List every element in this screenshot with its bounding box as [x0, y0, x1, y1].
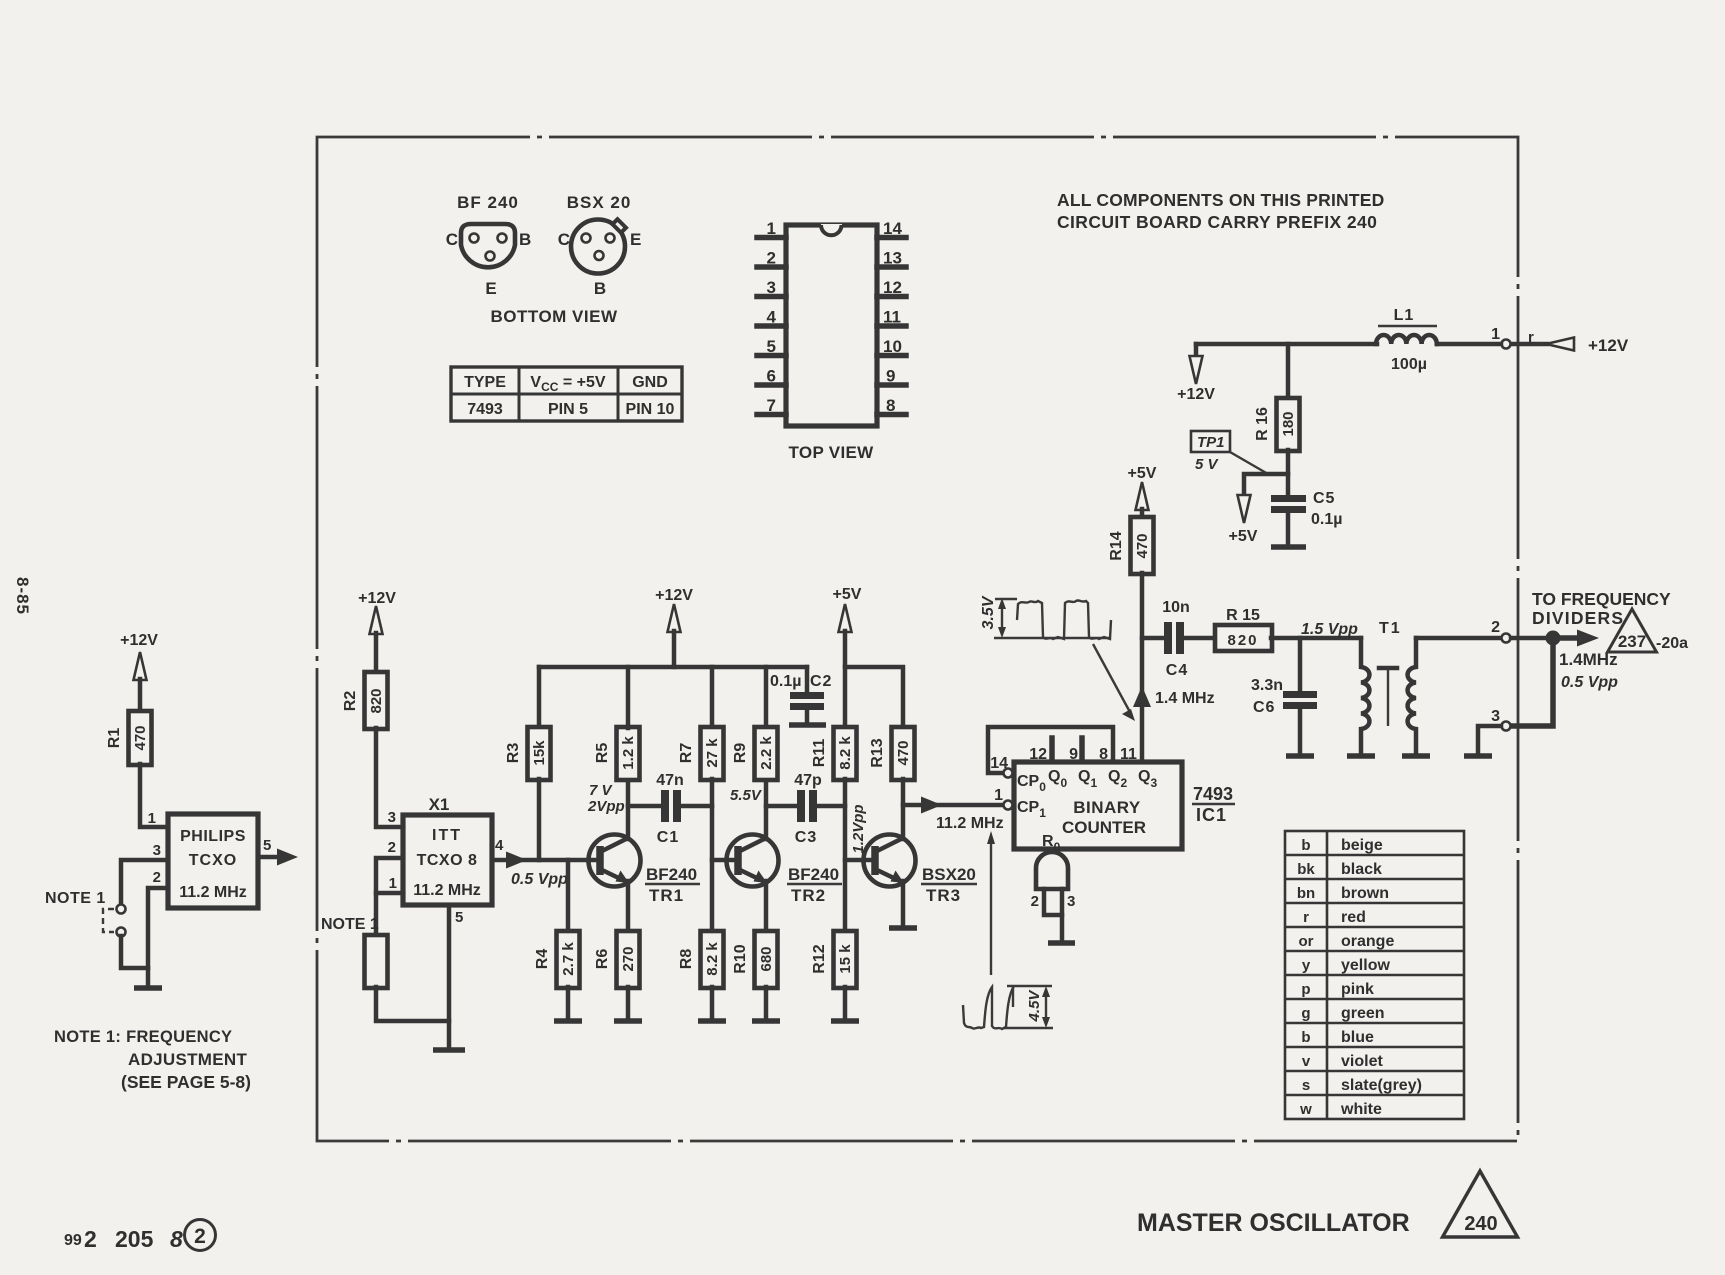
- resistor R12: [834, 931, 857, 988]
- svg-text:b: b: [1301, 1029, 1310, 1046]
- waveform 4.5V drop mark: [1012, 988, 1014, 1007]
- IC body: [786, 225, 877, 426]
- svg-text:R9: R9: [732, 743, 749, 764]
- svg-text:MASTER OSCILLATOR: MASTER OSCILLATOR: [1137, 1209, 1410, 1237]
- svg-text:3: 3: [153, 842, 161, 859]
- svg-text:1: 1: [389, 875, 397, 892]
- svg-text:CIRCUIT BOARD CARRY PREFIX: CIRCUIT BOARD CARRY PREFIX 240: [1057, 212, 1377, 232]
- DIP pin numbers left: [767, 219, 777, 415]
- svg-text:GND: GND: [632, 374, 668, 391]
- svg-text:PHILIPS: PHILIPS: [180, 828, 246, 845]
- svg-text:8: 8: [170, 1226, 183, 1252]
- svg-text:orange: orange: [1341, 933, 1394, 950]
- T1 secondary winding: [1408, 638, 1416, 754]
- arrow pin4 (filled): [506, 852, 527, 869]
- ground (R6): [614, 1018, 642, 1024]
- svg-text:brown: brown: [1341, 885, 1389, 902]
- svg-text:BSX 20: BSX 20: [567, 193, 632, 212]
- svg-text:violet: violet: [1341, 1053, 1383, 1070]
- square waveform 3.5V: [1017, 600, 1111, 639]
- svg-text:R 16: R 16: [1254, 407, 1271, 441]
- svg-text:0.5 Vpp: 0.5 Vpp: [1561, 674, 1618, 691]
- svg-text:100µ: 100µ: [1391, 356, 1427, 373]
- svg-text:+5V: +5V: [1229, 528, 1258, 545]
- wire R13 to TR3 collector: [901, 779, 906, 839]
- svg-text:10n: 10n: [1162, 599, 1190, 616]
- wire junction to R16: [1286, 344, 1291, 399]
- svg-text:205: 205: [115, 1226, 154, 1252]
- gate pin 3: [1060, 889, 1065, 941]
- svg-text:4: 4: [495, 837, 504, 854]
- svg-text:r: r: [1303, 909, 1309, 926]
- svg-text:TCXO: TCXO: [189, 852, 237, 869]
- waveform top reference: [1007, 985, 1052, 987]
- svg-text:1: 1: [148, 810, 156, 827]
- svg-text:2: 2: [153, 869, 161, 886]
- wire pin2 to output node: [1511, 636, 1560, 641]
- DIP pin numbers right: [883, 219, 902, 415]
- svg-text:DIVIDERS: DIVIDERS: [1532, 608, 1624, 628]
- svg-text:3.3n: 3.3n: [1251, 677, 1283, 694]
- svg-text:7 V: 7 V: [589, 782, 614, 799]
- wire output pin5: [258, 855, 280, 860]
- svg-text:13: 13: [883, 249, 902, 268]
- transistor TR2 BF240: [727, 835, 779, 887]
- wire L1 segment: [1437, 342, 1501, 347]
- svg-text:R13: R13: [869, 738, 886, 767]
- wire +5V to R11: [843, 631, 848, 728]
- svg-text:X1: X1: [429, 795, 450, 814]
- svg-text:(SEE PAGE 5-8): (SEE PAGE 5-8): [121, 1072, 251, 1092]
- svg-text:5.5V: 5.5V: [730, 787, 763, 804]
- DIP pins left 1-7: [757, 238, 786, 415]
- wire R16 to C5: [1286, 450, 1291, 495]
- svg-text:R12: R12: [811, 944, 828, 973]
- svg-text:C4: C4: [1166, 662, 1188, 679]
- capacitor C4: [1164, 622, 1172, 654]
- pin tick 12: [1049, 738, 1055, 762]
- BSX20 pin C: [582, 234, 591, 243]
- pin circle 1: [1502, 340, 1511, 349]
- svg-text:+5V: +5V: [1128, 465, 1157, 482]
- svg-text:1.2Vpp: 1.2Vpp: [850, 804, 867, 853]
- svg-text:R 15: R 15: [1226, 607, 1260, 624]
- svg-text:8.2 k: 8.2 k: [837, 736, 854, 770]
- DIP pins right 14-8: [877, 238, 906, 415]
- sheet ref triangle 237: [1608, 609, 1657, 652]
- wire +5V tap: [1244, 474, 1288, 496]
- +5V supply arrow (R14): [1136, 482, 1149, 510]
- capacitor C1: [661, 790, 669, 822]
- svg-text:3: 3: [767, 278, 776, 297]
- svg-text:470: 470: [132, 725, 149, 750]
- svg-text:2: 2: [1031, 893, 1039, 910]
- wire node down to pin 3: [1511, 638, 1553, 726]
- wire secondary to pin 2: [1416, 636, 1501, 641]
- svg-text:R5: R5: [594, 743, 611, 764]
- resistor R8: [701, 931, 724, 988]
- pin circle 2: [1502, 634, 1511, 643]
- svg-text:R3: R3: [505, 743, 522, 764]
- svg-text:2.2 k: 2.2 k: [758, 736, 775, 770]
- svg-text:2: 2: [84, 1226, 97, 1252]
- svg-text:BF 240: BF 240: [457, 193, 519, 212]
- svg-text:8: 8: [886, 396, 895, 415]
- svg-text:g: g: [1301, 1005, 1310, 1022]
- wire pin4 output to TR1 base: [492, 858, 592, 863]
- wire R6 to ground: [626, 987, 631, 1019]
- svg-text:slate(grey): slate(grey): [1341, 1077, 1422, 1094]
- capacitor C2 (decoupling): [805, 667, 810, 694]
- wire pin3 to adjust contact: [121, 860, 168, 904]
- wire base node to R8: [710, 860, 715, 932]
- BSX20 pin B: [595, 251, 604, 260]
- svg-text:5: 5: [767, 337, 776, 356]
- wire +5V to R14: [1140, 509, 1145, 518]
- svg-text:14: 14: [883, 219, 902, 238]
- svg-text:yellow: yellow: [1341, 957, 1390, 974]
- svg-text:NOTE 1: NOTE 1: [321, 916, 379, 933]
- svg-text:b: b: [1301, 837, 1310, 854]
- svg-text:180: 180: [1280, 411, 1297, 436]
- svg-text:11.2 MHz: 11.2 MHz: [179, 884, 247, 901]
- svg-text:beige: beige: [1341, 837, 1383, 854]
- resistor R3: [537, 667, 542, 728]
- wire arrow to R1: [138, 679, 143, 712]
- +12V supply arrow (open, up): [134, 652, 147, 680]
- arrow 1.4 MHz (filled, up): [1133, 686, 1151, 707]
- svg-text:C: C: [558, 230, 570, 249]
- svg-text:E: E: [630, 230, 641, 249]
- svg-text:B: B: [594, 279, 606, 298]
- capacitor C5: [1271, 495, 1306, 502]
- wire base node to R4: [566, 860, 571, 932]
- wire pin5 to ground: [447, 905, 452, 1048]
- wire R5 top to bus: [626, 667, 631, 728]
- svg-text:4: 4: [767, 308, 777, 327]
- wire R4 to ground: [566, 987, 571, 1019]
- svg-text:C1: C1: [657, 829, 679, 846]
- wire arrow to bus: [672, 631, 677, 667]
- svg-text:BF240: BF240: [788, 865, 839, 884]
- svg-text:R2: R2: [342, 691, 359, 712]
- svg-text:TP1: TP1: [1197, 434, 1225, 451]
- ground (R0 gate): [1048, 940, 1075, 946]
- svg-text:11: 11: [883, 308, 901, 327]
- annotation arrow up to 11.2MHz wire: [990, 838, 992, 975]
- +12V supply arrow (bus): [668, 604, 681, 632]
- svg-text:R6: R6: [594, 949, 611, 970]
- wire TR2 collector to R9: [764, 780, 769, 839]
- svg-text:470: 470: [895, 740, 912, 765]
- +5V supply arrow (amp): [839, 604, 852, 632]
- svg-text:y: y: [1302, 957, 1311, 974]
- +5V supply arrow (open, down): [1238, 495, 1251, 523]
- svg-text:+5V: +5V: [833, 586, 862, 603]
- wire pin3 to ground: [1478, 726, 1501, 754]
- svg-text:3: 3: [1067, 893, 1075, 910]
- node contact lower: [117, 928, 126, 937]
- wire R2 to pin3: [376, 728, 403, 827]
- svg-text:v: v: [1302, 1053, 1311, 1070]
- svg-text:2: 2: [194, 1225, 206, 1248]
- T1 core: [1379, 666, 1397, 671]
- svg-text:NOTE 1: FREQUENCY: NOTE 1: FREQUENCY: [54, 1028, 232, 1046]
- svg-text:15 k: 15 k: [837, 944, 854, 974]
- resistor R10: [755, 931, 778, 988]
- svg-text:BF240: BF240: [646, 865, 697, 884]
- resistor R16: [1277, 398, 1300, 451]
- svg-text:27 k: 27 k: [704, 738, 721, 768]
- node contact upper: [117, 905, 126, 914]
- svg-text:R4: R4: [534, 949, 551, 970]
- svg-text:3: 3: [388, 809, 396, 826]
- ground (pin2): [134, 985, 162, 991]
- svg-text:240: 240: [1464, 1213, 1497, 1235]
- dashed adjustment link: [103, 909, 114, 932]
- colour code names: [1340, 837, 1422, 1118]
- svg-text:7493: 7493: [1193, 784, 1233, 804]
- resistor R1: [129, 711, 152, 765]
- svg-text:BOTTOM VIEW: BOTTOM VIEW: [490, 307, 617, 326]
- ground (C5): [1271, 544, 1306, 550]
- resistor R9: [764, 667, 769, 728]
- BSX20 pin E: [606, 234, 615, 243]
- svg-text:0.1µ: 0.1µ: [1311, 511, 1342, 528]
- svg-text:470: 470: [1134, 533, 1151, 558]
- svg-text:5: 5: [455, 909, 463, 926]
- +12V bus: [539, 665, 807, 670]
- wire R7 through C1 node to TR2 base: [712, 779, 730, 860]
- svg-text:TOP VIEW: TOP VIEW: [789, 443, 875, 462]
- resistor R5: [617, 727, 640, 780]
- resistor R7: [710, 667, 715, 728]
- resistor R13: [892, 727, 915, 780]
- svg-text:C2: C2: [810, 673, 832, 690]
- IC box binary counter: [1014, 762, 1182, 849]
- svg-text:TCXO 8: TCXO 8: [417, 852, 478, 869]
- svg-text:ADJUSTMENT: ADJUSTMENT: [128, 1050, 247, 1069]
- transistor TR1 BF240: [589, 835, 641, 887]
- gate pin 2: [1044, 889, 1062, 915]
- op box PHILIPS TCXO: [168, 814, 258, 908]
- svg-text:1: 1: [994, 787, 1003, 804]
- svg-text:ITT: ITT: [432, 827, 462, 844]
- svg-text:8.2 k: 8.2 k: [704, 942, 721, 976]
- wire R1 to pin1: [140, 764, 168, 827]
- ground (R8): [698, 1018, 726, 1024]
- pin circle CP0: [1004, 769, 1013, 778]
- svg-text:E: E: [485, 279, 496, 298]
- resistor R4: [557, 931, 580, 988]
- ground (T1 primary): [1347, 753, 1375, 759]
- wire R14 down to counter pin 11: [1140, 573, 1145, 762]
- svg-text:680: 680: [758, 946, 775, 971]
- resistor R6: [617, 931, 640, 988]
- svg-text:1.2 k: 1.2 k: [620, 736, 637, 770]
- notch: [821, 224, 842, 235]
- resistor R2: [365, 672, 388, 729]
- svg-text:6: 6: [767, 367, 776, 386]
- wire pin2: [376, 858, 403, 893]
- pin circle CP1: [1004, 801, 1013, 810]
- svg-text:C6: C6: [1253, 699, 1275, 716]
- svg-text:TO FREQUENCY: TO FREQUENCY: [1532, 589, 1671, 609]
- svg-text:white: white: [1340, 1101, 1382, 1118]
- trimmer resistor (NOTE 1): [365, 935, 388, 988]
- wire TR3 emitter to ground: [901, 881, 906, 926]
- svg-text:C: C: [446, 230, 458, 249]
- svg-text:-20a: -20a: [1656, 635, 1688, 652]
- svg-text:47n: 47n: [656, 772, 684, 789]
- svg-text:0.1µ: 0.1µ: [770, 673, 801, 690]
- svg-text:8-85: 8-85: [13, 577, 32, 615]
- svg-text:47p: 47p: [794, 772, 822, 789]
- svg-text:L1: L1: [1394, 307, 1415, 324]
- wire R15 to T1: [1271, 636, 1361, 641]
- +12V supply arrow: [370, 606, 383, 634]
- svg-text:p: p: [1301, 981, 1310, 998]
- wire L1 to +12V down arrow: [1196, 342, 1377, 347]
- resistor R15: [1215, 625, 1272, 651]
- transistor TR3 BSX20: [864, 835, 916, 887]
- wire TR2 collector tap to C3: [766, 804, 799, 809]
- waveform baseline: [994, 637, 1111, 639]
- svg-text:2: 2: [767, 249, 776, 268]
- svg-text:r: r: [1528, 329, 1534, 346]
- svg-text:+12V: +12V: [655, 587, 693, 604]
- junction node (output): [1546, 631, 1561, 646]
- capacitor C6: [1298, 638, 1303, 692]
- wire corner down: [1194, 344, 1199, 357]
- svg-text:237: 237: [1618, 632, 1646, 651]
- svg-text:+12V: +12V: [1588, 336, 1629, 355]
- wire pin1 to trimmer: [376, 893, 403, 936]
- svg-text:9: 9: [886, 367, 895, 386]
- ground (pin3): [1464, 753, 1492, 759]
- op box X1 ITT TCXO8: [403, 815, 492, 905]
- svg-text:1: 1: [767, 219, 776, 238]
- svg-text:820: 820: [1227, 632, 1258, 649]
- svg-text:3.5V: 3.5V: [980, 595, 997, 629]
- svg-text:bk: bk: [1297, 861, 1315, 878]
- test point TP1: [1191, 431, 1230, 452]
- wire R12 to ground: [843, 987, 848, 1019]
- BF240 pin B: [498, 234, 507, 243]
- wire C4 to R15: [1184, 636, 1216, 641]
- pin tick 9: [1079, 738, 1085, 762]
- svg-text:blue: blue: [1341, 1029, 1374, 1046]
- svg-text:red: red: [1341, 909, 1366, 926]
- svg-text:1.4MHz: 1.4MHz: [1559, 650, 1618, 669]
- waveform 4.5V: [963, 986, 1014, 1029]
- waveform bottom reference: [1003, 1027, 1053, 1029]
- svg-text:C5: C5: [1313, 490, 1335, 507]
- svg-text:270: 270: [620, 946, 637, 971]
- svg-text:BINARY: BINARY: [1073, 798, 1141, 817]
- ground (R12): [831, 1018, 859, 1024]
- svg-text:T1: T1: [1379, 620, 1402, 637]
- svg-text:+12V: +12V: [1177, 386, 1215, 403]
- wire R8 to ground: [710, 987, 715, 1019]
- svg-text:C3: C3: [795, 829, 817, 846]
- wire R11 through C3 node down to R12: [843, 779, 848, 932]
- package BF240 outline: [461, 224, 515, 267]
- wire trimmer to pin5 wire: [376, 987, 449, 1021]
- capacitor C3: [797, 790, 805, 822]
- wire R3 to base line: [537, 779, 542, 860]
- arrow output (filled): [277, 849, 298, 866]
- svg-text:R11: R11: [811, 739, 828, 768]
- output arrow to frequency dividers: [1553, 635, 1578, 641]
- svg-text:15k: 15k: [531, 740, 548, 766]
- svg-text:R1: R1: [106, 728, 123, 749]
- feedback loop wire pins 14-12-9-8: [988, 727, 1113, 773]
- svg-text:11.2 MHz: 11.2 MHz: [413, 882, 481, 899]
- T1 primary winding: [1361, 638, 1369, 754]
- wire lower contact to pin2 wire: [121, 936, 148, 968]
- svg-text:IC1: IC1: [1196, 805, 1227, 825]
- svg-text:NOTE 1: NOTE 1: [45, 890, 106, 907]
- svg-text:4.5V: 4.5V: [1026, 989, 1043, 1023]
- wire C4 branch: [1142, 636, 1166, 641]
- svg-text:R8: R8: [678, 949, 695, 970]
- wire R10 to ground: [764, 987, 769, 1019]
- wire pin2 to ground: [148, 888, 168, 986]
- wire base node to TR3: [845, 858, 867, 863]
- svg-text:s: s: [1302, 1077, 1310, 1094]
- arrow output 11.2 MHz (filled): [921, 797, 942, 814]
- svg-text:1.4 MHz: 1.4 MHz: [1155, 690, 1215, 707]
- resistor R11: [834, 727, 857, 780]
- svg-text:5: 5: [263, 837, 271, 854]
- colour code letters: [1297, 837, 1316, 1118]
- svg-text:2: 2: [388, 839, 396, 856]
- ground (T1 secondary): [1402, 753, 1430, 759]
- svg-text:1: 1: [1491, 326, 1500, 343]
- svg-text:or: or: [1299, 933, 1314, 950]
- svg-text:3: 3: [1491, 708, 1500, 725]
- svg-text:820: 820: [368, 688, 385, 713]
- svg-text:+12V: +12V: [120, 632, 158, 649]
- ground (X1): [433, 1047, 465, 1053]
- svg-text:+12V: +12V: [358, 590, 396, 607]
- svg-text:7493: 7493: [467, 401, 503, 418]
- svg-text:pink: pink: [1341, 981, 1374, 998]
- svg-text:R10: R10: [732, 944, 749, 973]
- svg-text:green: green: [1341, 1005, 1385, 1022]
- wire TR2 emitter to R10: [764, 881, 769, 932]
- svg-text:PIN 10: PIN 10: [626, 401, 675, 418]
- svg-text:BSX20: BSX20: [922, 865, 976, 884]
- svg-text:2Vpp: 2Vpp: [587, 798, 625, 815]
- wire to R2: [374, 633, 379, 673]
- svg-text:12: 12: [883, 278, 902, 297]
- svg-text:2: 2: [1491, 619, 1500, 636]
- dimension arrow 4.5V: [1045, 990, 1047, 1024]
- svg-text:B: B: [519, 230, 531, 249]
- ground (R4): [554, 1018, 582, 1024]
- svg-text:2.7 k: 2.7 k: [560, 942, 577, 976]
- ground (R10): [752, 1018, 780, 1024]
- svg-text:0.5 Vpp: 0.5 Vpp: [511, 871, 568, 888]
- svg-text:bn: bn: [1297, 885, 1315, 902]
- wire C1 to R7 line: [681, 804, 712, 809]
- svg-text:R7: R7: [678, 743, 695, 764]
- svg-text:1.5 Vpp: 1.5 Vpp: [1301, 621, 1358, 638]
- pin circle 3: [1502, 722, 1511, 731]
- svg-text:w: w: [1299, 1101, 1312, 1118]
